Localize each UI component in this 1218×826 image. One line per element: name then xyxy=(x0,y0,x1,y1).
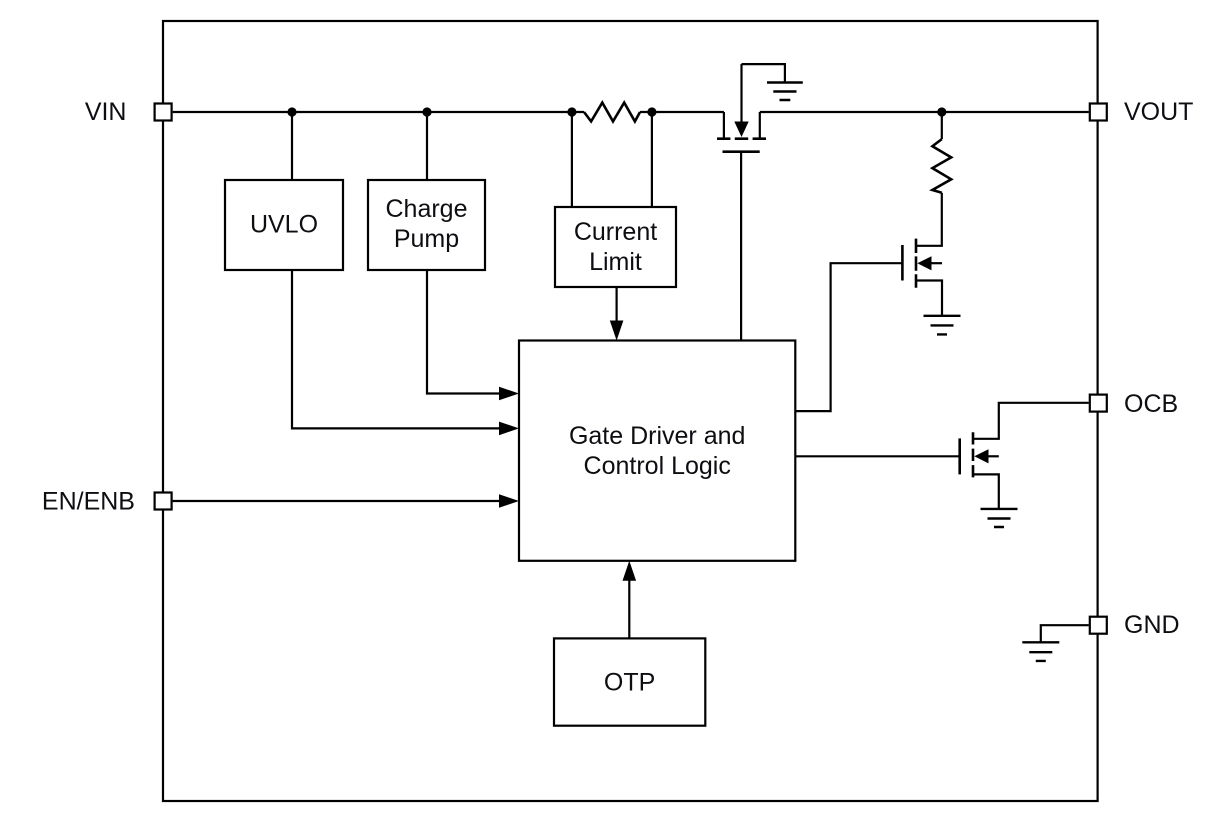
svg-text:VIN: VIN xyxy=(85,98,127,126)
resistor Rsense (horizontal zigzag) xyxy=(584,103,640,122)
wire resistor to pass FET xyxy=(640,111,724,113)
block OTP xyxy=(554,638,705,725)
svg-text:UVLO: UVLO xyxy=(250,211,318,239)
wire resistor left to Current Limit xyxy=(571,112,573,207)
pin OCB xyxy=(1090,395,1107,412)
svg-text:GND: GND xyxy=(1124,611,1180,639)
node junction dot Charge Pump tap xyxy=(422,107,431,116)
pin EN/ENB xyxy=(155,493,172,510)
svg-text:Current: Current xyxy=(574,218,657,246)
wire control logic to Q3 gate xyxy=(795,455,959,457)
wire resistor right to Current Limit xyxy=(651,112,653,207)
wire OCB pin to Q3 drain xyxy=(973,403,1089,439)
wire VIN to UVLO xyxy=(291,112,293,180)
wire VIN to Charge Pump xyxy=(426,112,428,180)
wire Q1 gate to control logic xyxy=(740,152,742,341)
svg-text:Control Logic: Control Logic xyxy=(584,452,731,480)
ground substrate of Q1 xyxy=(767,83,803,101)
wire VIN rail xyxy=(173,111,584,113)
wire OTP to control logic xyxy=(628,580,630,638)
svg-text:Pump: Pump xyxy=(394,225,459,253)
svg-text:VOUT: VOUT xyxy=(1124,98,1193,126)
IC boundary box xyxy=(163,21,1098,801)
wire GND pin to ground xyxy=(1041,625,1089,642)
svg-text:Gate Driver and: Gate Driver and xyxy=(569,422,745,450)
resistor Rdischarge (vertical zigzag) xyxy=(932,139,951,193)
transistor Q3 (OCB NMOS) xyxy=(960,432,999,509)
wire control logic to Q2 gate xyxy=(795,263,902,411)
pass transistor Q1 (power MOSFET) xyxy=(717,64,766,152)
node junction dot resistor left xyxy=(567,107,576,116)
pin VOUT xyxy=(1090,104,1107,121)
svg-text:OCB: OCB xyxy=(1124,390,1178,418)
wire resistor to Q2 drain xyxy=(916,193,942,246)
wire VOUT rail xyxy=(760,111,1089,113)
svg-text:OTP: OTP xyxy=(604,669,655,697)
svg-text:Limit: Limit xyxy=(589,248,642,276)
block UVLO xyxy=(225,180,343,270)
wire EN/ENB to control logic xyxy=(173,500,500,502)
block Gate Driver and Control Logic xyxy=(519,341,795,561)
transistor Q2 (discharge NMOS) xyxy=(902,239,942,316)
svg-text:Charge: Charge xyxy=(386,195,468,223)
pin GND xyxy=(1090,617,1107,634)
block Current Limit xyxy=(555,207,676,287)
ground below Q3 xyxy=(981,509,1018,527)
block Charge Pump xyxy=(368,180,485,270)
wire Q1 body to substrate ground xyxy=(742,64,785,81)
svg-text:EN/ENB: EN/ENB xyxy=(42,488,135,516)
ground below Q2 xyxy=(924,316,961,335)
pin VIN xyxy=(155,104,172,121)
wire UVLO to control logic xyxy=(292,270,500,428)
node junction dot UVLO tap xyxy=(287,107,296,116)
wire Charge Pump to control logic xyxy=(427,270,500,394)
node junction dot discharge tap xyxy=(937,107,946,116)
wire to discharge resistor xyxy=(941,112,943,139)
ground at GND pin xyxy=(1022,642,1059,661)
wire Current Limit to control logic xyxy=(615,287,617,321)
node junction dot resistor right xyxy=(647,107,656,116)
